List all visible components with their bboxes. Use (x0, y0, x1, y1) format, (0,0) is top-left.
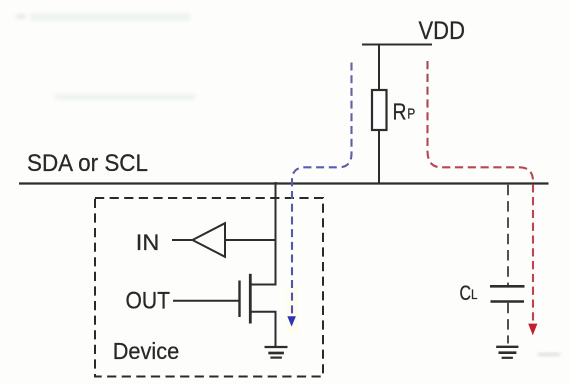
svg-text:P: P (407, 106, 415, 123)
svg-text:R: R (393, 99, 407, 125)
svg-text:L: L (471, 286, 478, 302)
svg-text:OUT: OUT (126, 288, 171, 315)
svg-text:C: C (460, 282, 472, 305)
svg-text:VDD: VDD (419, 17, 466, 45)
svg-text:SDA or SCL: SDA or SCL (27, 150, 148, 177)
svg-text:Device: Device (113, 338, 180, 364)
svg-text:IN: IN (136, 230, 160, 255)
